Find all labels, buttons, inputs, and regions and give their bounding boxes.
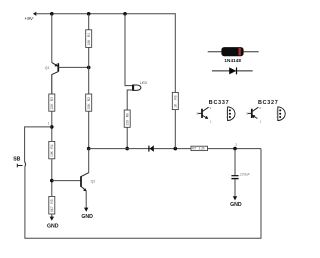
wire Q2 base [52, 180, 81, 182]
svg-text:R7: R7 [192, 147, 196, 151]
junction col B / Q2 base [50, 179, 54, 183]
junction col C / Q1 base [87, 66, 91, 70]
BC337 package (TO-92 bottom view) [228, 107, 235, 121]
button contact blade [25, 161, 26, 167]
resistor R3 (below Q1 collector) [49, 94, 55, 111]
junction rail/col C [87, 12, 91, 16]
diode D2 (points left) [149, 145, 154, 151]
wire col C: R1 to Q1 base junction and on to R2 [88, 47, 90, 94]
wire cap to ground [234, 179, 236, 196]
capacitor C1 220uF [231, 173, 250, 179]
diode 1N4148 physical drawing [208, 48, 259, 63]
svg-text:GND: GND [230, 202, 242, 208]
junction rail/col B [50, 12, 54, 16]
ground (capacitor) arrow [233, 196, 237, 200]
BC337 base lead [198, 112, 202, 114]
wire col E: rail corner down to R8 [174, 13, 176, 92]
svg-text:4K7: 4K7 [50, 206, 54, 212]
wire col C: junction down to Q2 collector [88, 149, 90, 173]
svg-text:BC337: BC337 [209, 100, 230, 106]
wire top rail [36, 13, 176, 15]
Q1 collector lead [52, 72, 59, 94]
svg-text:GND: GND [81, 214, 93, 220]
svg-text:LED: LED [140, 81, 148, 85]
svg-text:R2: R2 [87, 97, 91, 101]
Q1 base lead [58, 66, 88, 68]
junction col E / mid line [174, 147, 178, 151]
BC337 collector lead [202, 107, 208, 111]
resistor R2 [86, 94, 92, 111]
Q2 base bar [80, 176, 82, 187]
wire col B: rail to Q1 emitter [51, 14, 53, 63]
wire col B: R5 to ground [51, 214, 53, 217]
LED D1 [133, 81, 148, 90]
junction cap branch / mid line [233, 147, 237, 151]
button actuator [17, 165, 22, 167]
Q1 emitter arrow (PNP, points to bar) [54, 64, 57, 67]
svg-text:1N4148: 1N4148 [224, 58, 241, 63]
power terminal +9V arrow [33, 12, 36, 16]
BC327 base lead [248, 112, 252, 114]
body [222, 48, 243, 56]
transistor Q2 (NPN) [81, 173, 95, 192]
svg-text:10K: 10K [50, 150, 54, 157]
svg-text:1: 1 [48, 122, 50, 126]
wire mid line [89, 148, 261, 150]
wire col E: R8 to mid line [174, 110, 176, 149]
svg-text:2: 2 [235, 143, 237, 147]
svg-text:10K: 10K [87, 103, 91, 110]
junction rail/col D [123, 12, 127, 16]
wire switch to bottom rail [25, 149, 261, 239]
wire col B: R4 to R5 [51, 159, 53, 197]
ground (col B) arrow [50, 217, 54, 221]
wire cap branch top [234, 149, 236, 176]
svg-text:R1: R1 [87, 33, 91, 37]
resistor R6 (below LED) [124, 110, 130, 127]
wire to switch [25, 127, 52, 161]
svg-text:220uF: 220uF [239, 173, 251, 177]
Q2 emitter arrow (NPN, points out) [83, 188, 86, 191]
Q1 base bar [57, 63, 59, 71]
svg-text:+9V: +9V [24, 16, 34, 22]
diode symbol (1N4148) [212, 67, 253, 74]
wire Q2 emitter to ground [85, 191, 87, 208]
svg-text:R6: R6 [125, 113, 129, 117]
resistor R8 [172, 92, 178, 109]
wire col D: R6 to mid line [126, 127, 128, 148]
resistor R1 [86, 30, 92, 48]
BC327 reference group [246, 100, 285, 123]
svg-text:2.2k: 2.2k [199, 147, 206, 151]
svg-text:330: 330 [125, 120, 129, 126]
svg-text:GND: GND [47, 224, 59, 230]
BC337 emitter lead with arrow [202, 115, 207, 118]
svg-text:SB: SB [13, 157, 20, 163]
wire col D: rail to LED [125, 14, 132, 86]
junction col B / switch branch [50, 125, 54, 129]
wire col B: R3 to R4 [51, 111, 53, 141]
BC337 reference group [196, 100, 235, 123]
junction col D / mid line [125, 147, 129, 151]
svg-text:R4: R4 [50, 144, 54, 148]
BC327 package (TO-92 bottom view) [278, 107, 285, 121]
svg-text:10K: 10K [87, 39, 91, 46]
wire col C: rail to R1 [88, 14, 90, 30]
pushbutton SB [13, 157, 25, 168]
svg-text:Q1: Q1 [45, 66, 50, 70]
svg-text:R3: R3 [50, 97, 54, 101]
junction col C / mid line [87, 147, 91, 151]
Q2 collector lead [81, 173, 89, 177]
ground (Q2 emitter) arrow [84, 208, 88, 212]
wire LED cathode down [127, 90, 132, 110]
svg-text:R5: R5 [50, 199, 54, 203]
BC337 symbol base bar [201, 109, 203, 118]
BC327 collector lead [252, 107, 258, 111]
Q2 emitter lead [81, 186, 86, 191]
BC327 emitter lead with arrow (PNP, points in) [252, 115, 257, 118]
resistor R5 [49, 196, 55, 214]
BC327 symbol base bar [251, 109, 253, 118]
svg-text:22K: 22K [50, 103, 54, 110]
svg-text:R8: R8 [173, 95, 177, 99]
transistor Q1 (PNP) [45, 63, 89, 94]
svg-text:BC327: BC327 [258, 100, 279, 106]
svg-text:Q2: Q2 [91, 180, 96, 184]
resistor R7 (horizontal) [191, 146, 208, 151]
resistor R4 [49, 141, 55, 158]
cathode band [239, 48, 241, 56]
leads [208, 51, 259, 53]
wire col C: R2 to mid-line junction [88, 111, 90, 148]
Q1 emitter lead [52, 63, 58, 67]
